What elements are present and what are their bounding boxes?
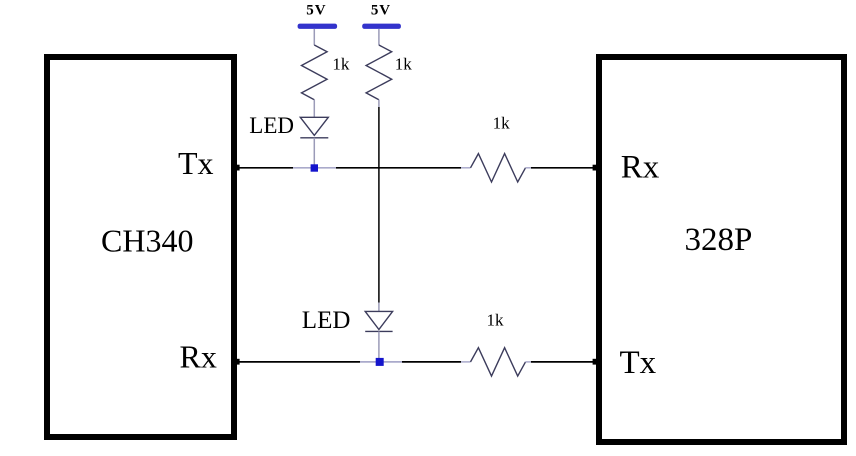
wire junction A to R3 [336,167,461,169]
resistor R2 1k (vertical) [366,45,392,100]
node A junction dot [311,164,318,171]
wire R1 to LED D1 [313,100,315,118]
IC box U1 CH340 [47,57,234,437]
wire R3 to Rx(328P) [531,167,597,169]
LED D1 [300,117,328,138]
svg-text:Rx: Rx [621,149,660,185]
junction lead (gray) at node B [360,361,402,363]
svg-text:5V: 5V [371,3,391,19]
svg-text:Tx: Tx [620,345,657,381]
node B junction dot [376,358,384,366]
resistor R4 1k (horizontal) [461,348,531,376]
resistor R1 1k (vertical) [302,45,328,100]
wire junction B to R4 [402,361,461,363]
pin stub at CH340 Rx [235,359,240,365]
LED D2 [365,311,392,331]
pin stub at 328P Rx [593,165,598,171]
svg-text:1k: 1k [493,114,511,133]
wire D2 to junction B [378,331,380,358]
wire VCC2 to R2 [378,29,380,45]
IC box U2 328P [599,57,844,442]
resistor R3 1k (horizontal) [461,154,531,182]
svg-text:5V: 5V [306,3,326,19]
wire Tx(CH340) to junction A [236,167,293,169]
power rail bar VCC1 [298,24,338,29]
svg-text:1k: 1k [395,55,413,74]
svg-text:LED: LED [249,113,294,138]
junction lead (gray) at node A [293,167,336,169]
power rail bar VCC2 [362,24,401,29]
svg-text:Rx: Rx [180,338,217,374]
svg-text:Tx: Tx [178,145,214,181]
svg-text:CH340: CH340 [101,223,193,259]
svg-text:LED: LED [302,307,351,334]
wire VCC1 to R1 [313,29,315,45]
svg-text:1k: 1k [332,55,350,74]
svg-text:1k: 1k [487,311,505,330]
pin stub at CH340 Tx [235,165,240,171]
pin stub at 328P Tx [593,359,598,365]
wire Rx(CH340) to junction B [236,361,360,363]
wire D1 to junction A [313,138,315,165]
svg-text:328P: 328P [685,222,753,258]
wire R4 to Tx(328P) [531,361,597,363]
wire R2 down to LED D2 (crosses Tx net) [378,100,380,312]
